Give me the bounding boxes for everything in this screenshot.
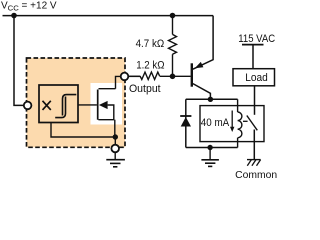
svg-text:40 mA: 40 mA bbox=[201, 117, 230, 129]
diode D1 triangle bbox=[181, 117, 191, 127]
svg-text:Load: Load bbox=[245, 72, 268, 84]
wire: top +12V rail bbox=[3, 15, 214, 17]
hall element X symbol bbox=[43, 101, 51, 110]
svg-text:Output: Output bbox=[129, 83, 161, 95]
sensor terminal circle (ground pin) bbox=[111, 145, 119, 153]
sensor: white backing box for output transistor bbox=[91, 83, 123, 125]
junction dot collector node bbox=[208, 97, 213, 102]
relay coil L1 bbox=[237, 99, 239, 112]
sensor transistor emitter lead bbox=[98, 105, 113, 120]
svg-text:115 VAC: 115 VAC bbox=[238, 33, 275, 45]
wire output pin to resistor bbox=[128, 75, 140, 77]
junction dot at base node bbox=[170, 74, 176, 80]
junction dot ground node bbox=[207, 145, 212, 150]
Q1 emitter arrow bbox=[195, 62, 204, 68]
hysteresis symbol bbox=[55, 97, 65, 118]
wire dot to ground terminal bbox=[114, 137, 116, 144]
chassis ground (Common) bbox=[247, 159, 261, 161]
Q1 collector lead bbox=[193, 84, 211, 100]
sensor: schmitt trigger box bbox=[39, 85, 78, 123]
diode D1 flyback branch bbox=[185, 99, 187, 147]
ground symbol (relay) bbox=[209, 148, 211, 160]
svg-text:4.7 kΩ: 4.7 kΩ bbox=[136, 38, 165, 50]
resistor R2 1.2 kOhm (horizontal) bbox=[129, 75, 140, 77]
relay contact blade bbox=[247, 116, 257, 131]
svg-text:Common: Common bbox=[235, 170, 277, 180]
40 mA current arrow bbox=[231, 111, 233, 129]
sensor terminal circle (VCC pin) bbox=[24, 102, 32, 110]
sensor transistor base wire bbox=[78, 104, 97, 106]
hall sensor package (shaded dashed box) bbox=[27, 58, 126, 147]
wire: collector node horizontal bbox=[186, 98, 238, 100]
junction dot left on rail bbox=[11, 13, 17, 19]
sensor transistor emitter arrow bbox=[99, 101, 108, 109]
sensor ground path from schmitt box bbox=[51, 123, 115, 138]
transistor Q1 (PNP) bar bbox=[191, 63, 193, 86]
sensor transistor collector lead bbox=[99, 88, 116, 90]
ground symbol (sensor) bbox=[114, 152, 116, 159]
wire: contact to common bbox=[253, 130, 255, 160]
resistor R1 4.7 kOhm (vertical) bbox=[172, 16, 174, 35]
sensor terminal circle (output pin) bbox=[121, 73, 129, 81]
junction dot for 4.7k branch bbox=[170, 13, 176, 19]
svg-text:1.2 kΩ: 1.2 kΩ bbox=[136, 60, 164, 72]
Q1 emitter lead from rail bbox=[193, 16, 213, 70]
wire: left VCC drop to sensor bbox=[14, 16, 24, 106]
relay box bbox=[200, 106, 264, 142]
relay armature tick bbox=[243, 120, 248, 122]
relay contact fixed lead bbox=[254, 86, 256, 115]
junction dot sensor ground bbox=[113, 134, 118, 139]
diode D1 cathode bar bbox=[180, 115, 191, 117]
sensor output transistor bar bbox=[97, 90, 99, 120]
Load box bbox=[233, 69, 275, 86]
wire: ground return horizontal bbox=[186, 147, 238, 149]
